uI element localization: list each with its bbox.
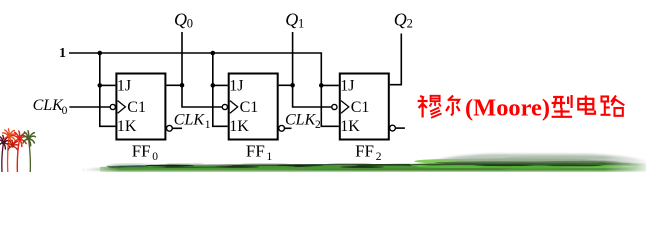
svg-text:CLK: CLK [285,111,317,128]
svg-text:C1: C1 [127,99,146,116]
svg-text:Q: Q [394,10,407,30]
svg-text:CLK: CLK [33,97,65,114]
svg-text:1K: 1K [340,118,360,135]
svg-text:C1: C1 [351,99,370,116]
svg-text:CLK: CLK [174,111,206,128]
svg-text:Q: Q [285,10,298,30]
svg-text:1K: 1K [117,118,137,135]
svg-text:0: 0 [62,105,68,117]
svg-text:1J: 1J [117,78,131,95]
svg-text:1: 1 [298,17,304,31]
svg-text:1: 1 [267,151,273,163]
svg-text:FF: FF [132,142,151,161]
svg-text:1J: 1J [229,78,243,95]
svg-text:2: 2 [407,17,413,31]
svg-text:1: 1 [205,119,211,131]
svg-text:1J: 1J [340,78,354,95]
svg-text:FF: FF [355,142,374,161]
svg-text:1: 1 [59,46,66,61]
svg-text:Q: Q [174,10,187,30]
svg-text:0: 0 [152,151,158,163]
svg-text:1K: 1K [229,118,249,135]
svg-text:2: 2 [376,151,382,163]
svg-text:(Moore): (Moore) [465,96,550,122]
svg-text:C1: C1 [240,99,259,116]
svg-text:0: 0 [187,17,193,31]
svg-text:2: 2 [315,119,321,131]
svg-text:FF: FF [246,142,265,161]
